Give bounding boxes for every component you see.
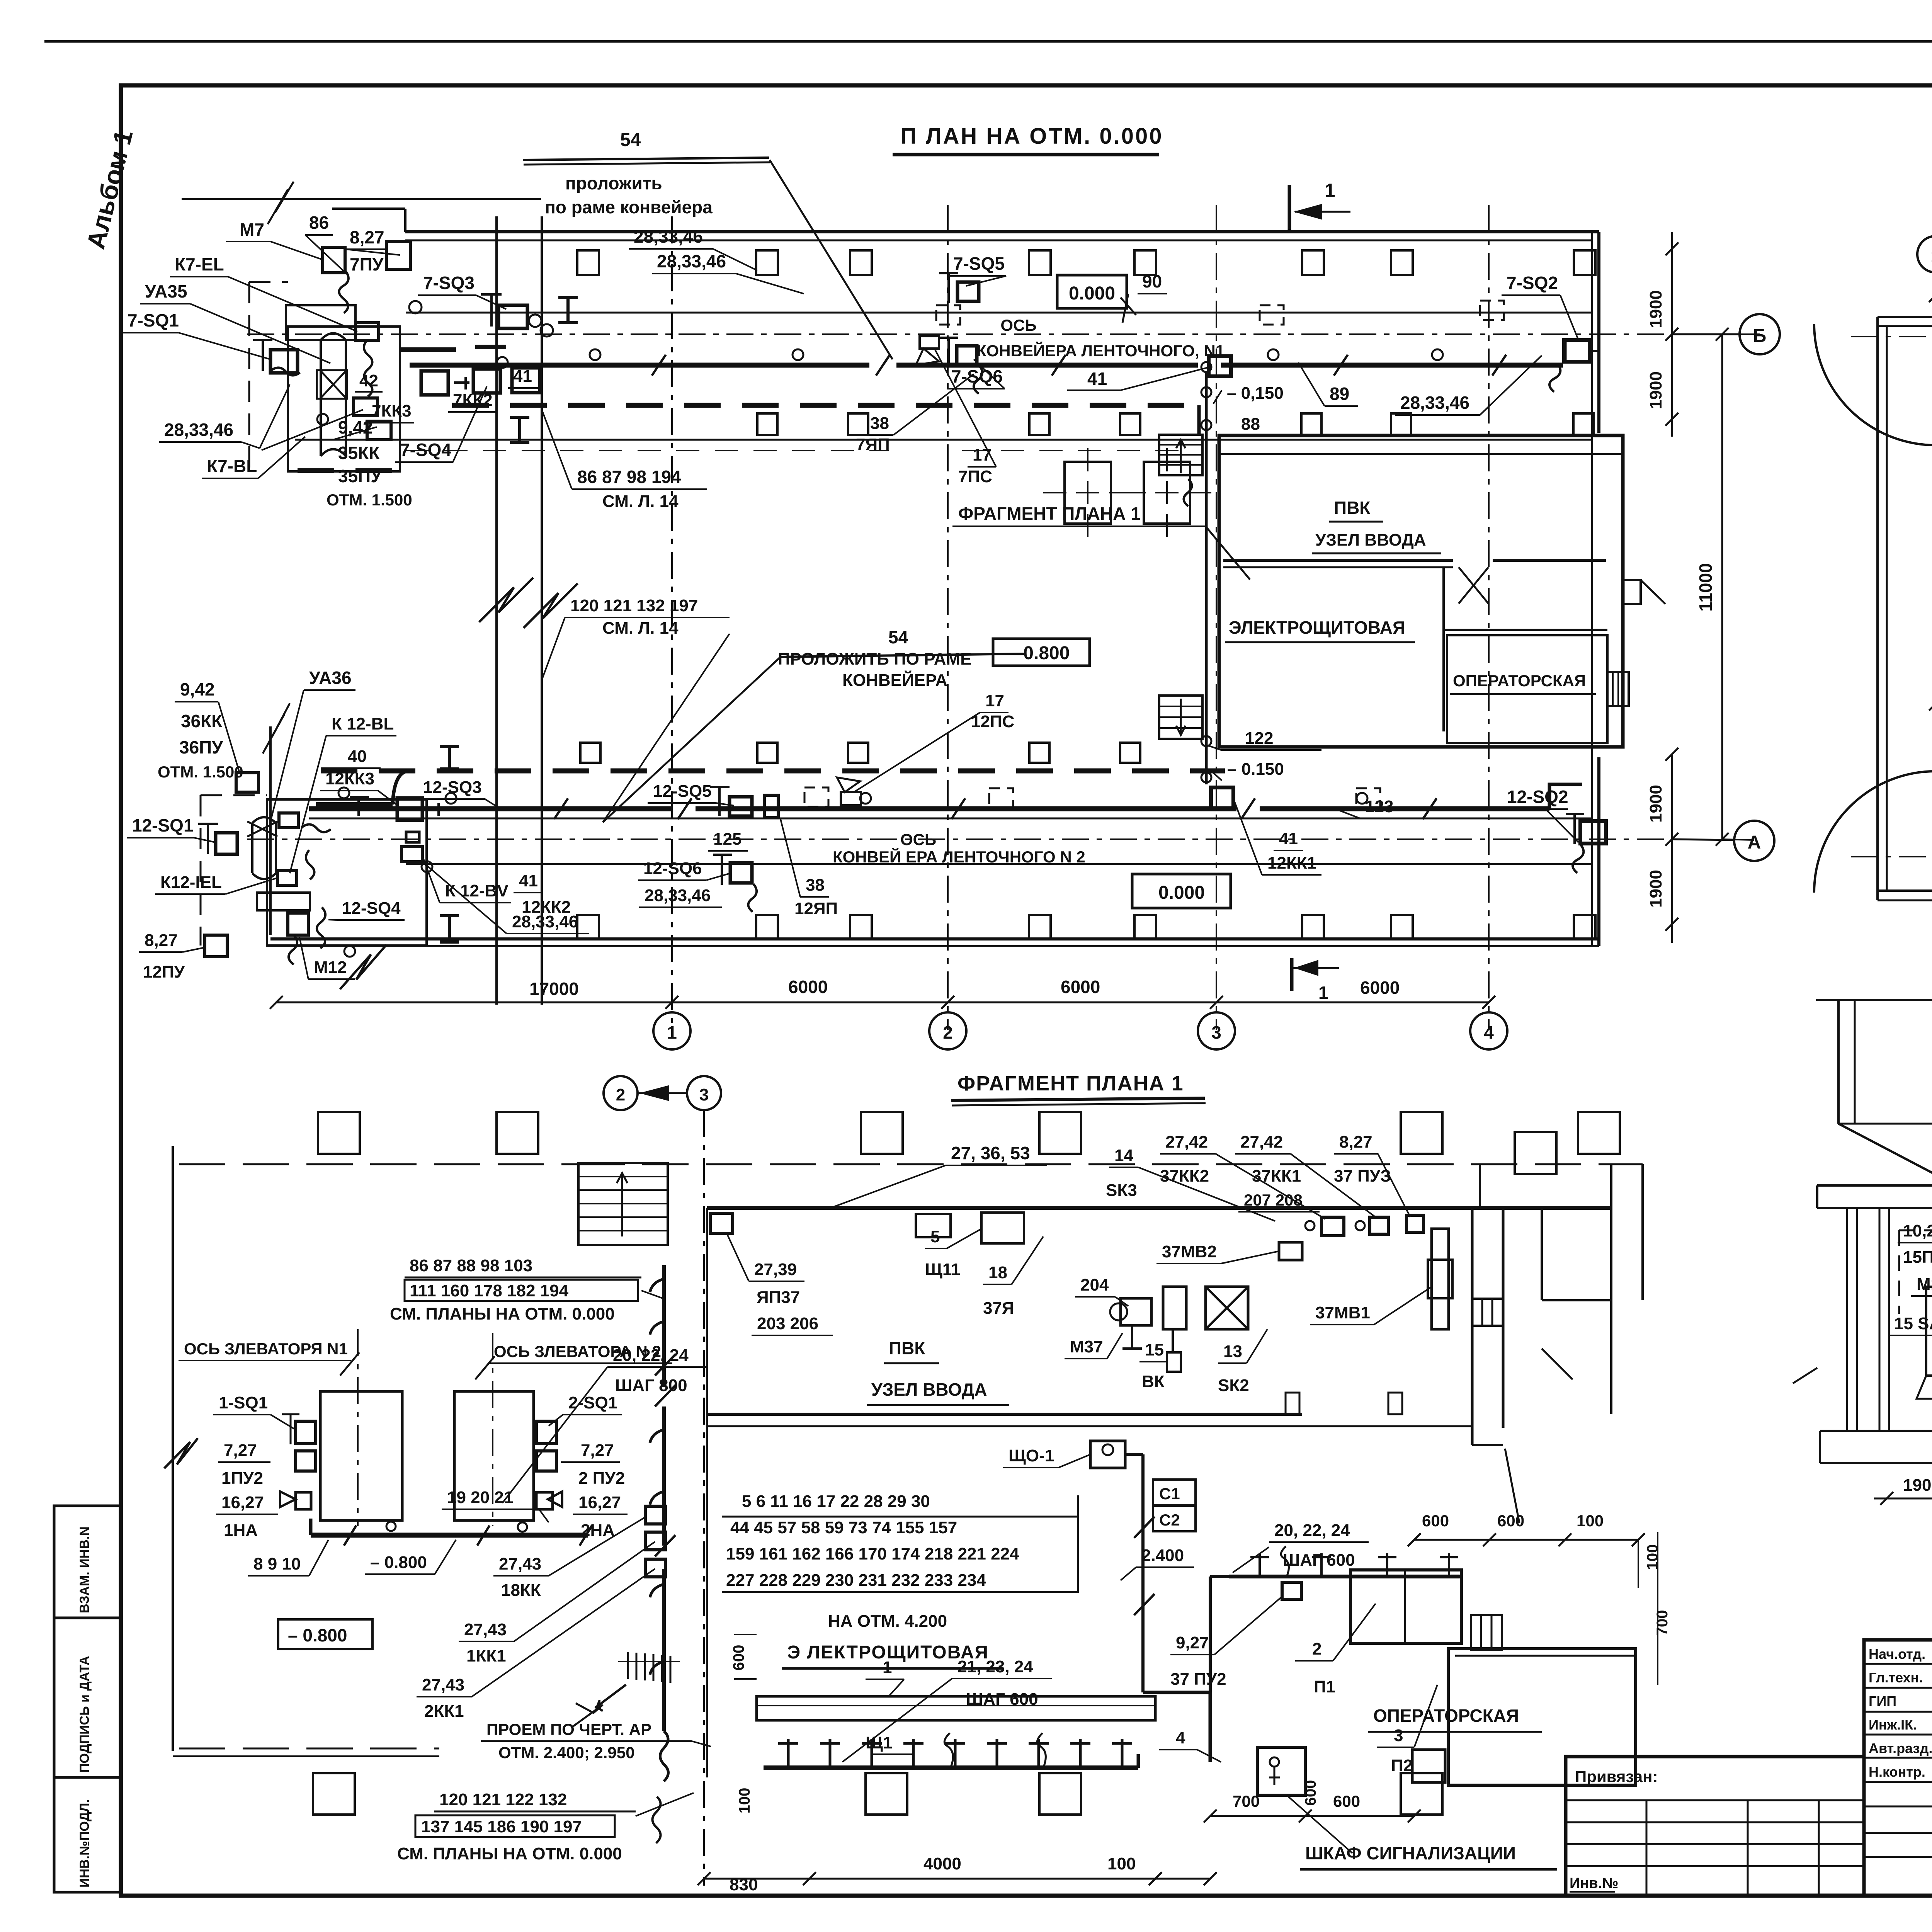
svg-text:41: 41 [519,871,538,890]
svg-text:9,42: 9,42 [180,679,215,699]
svg-text:К7-ЕL: К7-ЕL [175,254,224,274]
upper drive motor block [286,305,355,340]
svg-text:27,39: 27,39 [754,1260,797,1279]
svg-text:120 121 122 132: 120 121 122 132 [439,1790,567,1809]
svg-text:2КК1: 2КК1 [424,1702,464,1721]
svg-text:54: 54 [888,627,908,647]
camera symbol conveyor 1 [920,336,939,349]
svg-text:Инв.№: Инв.№ [1570,1875,1619,1891]
svg-text:ШКАФ СИГНАЛИЗАЦИИ: ШКАФ СИГНАЛИЗАЦИИ [1305,1843,1516,1863]
svg-text:1: 1 [1318,983,1328,1003]
fragment top columns squares [318,1112,360,1154]
svg-text:ИНВ.№ПОДЛ.: ИНВ.№ПОДЛ. [77,1799,92,1888]
svg-text:27, 36, 53: 27, 36, 53 [951,1143,1030,1163]
12-SQ6 device [730,863,752,883]
right wall window hatch [1607,672,1629,706]
svg-text:38: 38 [870,414,889,433]
inner vertical wall fragment [706,1208,708,1777]
svg-text:41: 41 [1087,369,1107,389]
elevator 2 axis [492,1333,493,1526]
svg-text:7-SQ4: 7-SQ4 [400,440,451,460]
cable squiggle below upper stair [1184,479,1192,506]
svg-text:120 121 132 197: 120 121 132 197 [570,596,698,615]
2-SQ1 device [536,1421,556,1444]
svg-text:86: 86 [309,213,329,233]
dashed device rects conveyor 1 [936,305,960,325]
left attach table Привязан [1566,1757,1864,1895]
12-SQ5 device [730,797,752,816]
svg-text:7ЯП: 7ЯП [856,435,890,454]
svg-text:0.000: 0.000 [1158,883,1205,903]
svg-text:1: 1 [667,1022,677,1043]
axis Б dash-dot [1851,336,1932,337]
svg-text:9,27: 9,27 [1176,1633,1209,1652]
svg-text:Нач.отд.: Нач.отд. [1869,1646,1925,1662]
cable corner to 12-SQ2 [1549,784,1582,809]
view direction circles 2-3 [604,1076,638,1110]
elevator 1 rectangle [320,1391,402,1520]
svg-text:0.000: 0.000 [1069,283,1115,304]
svg-text:по раме конвейера: по раме конвейера [545,197,713,217]
svg-text:SК3: SК3 [1106,1181,1137,1200]
svg-text:17: 17 [973,446,992,464]
upper cluster dashed boundary [248,282,250,479]
svg-text:К12-IЕL: К12-IЕL [160,873,222,892]
svg-text:– 0,150: – 0,150 [1227,384,1284,403]
svg-text:ШАГ 800: ШАГ 800 [615,1376,687,1395]
svg-text:28,33,46: 28,33,46 [1400,393,1469,413]
svg-text:УЗЕЛ ВВОДА: УЗЕЛ ВВОДА [871,1379,987,1400]
device 13 SК2 fan [1206,1287,1248,1329]
12-SQ1 device [216,833,237,854]
corridor walls mid fragment [1471,1208,1474,1445]
svg-text:ОСЬ: ОСЬ [1000,316,1036,334]
lower drive motor foundation [257,893,310,910]
Операторская room box [1448,1649,1636,1785]
device K7-EL box [355,323,379,340]
41 device [1209,356,1231,376]
1ПУ2 device [296,1451,316,1471]
svg-text:1: 1 [883,1658,892,1677]
svg-text:1900: 1900 [1646,290,1665,328]
dim 100 700 right rotated ticks [1657,1532,1658,1588]
svg-text:Авт.разд.: Авт.разд. [1869,1740,1932,1756]
grid axis line 3 [1216,205,1217,1030]
svg-text:12ПУ: 12ПУ [143,963,185,981]
svg-text:28,33,46: 28,33,46 [657,251,726,271]
svg-text:7КК3: 7КК3 [372,401,412,420]
svg-text:СМ. ПЛАНЫ НА ОТМ. 0.000: СМ. ПЛАНЫ НА ОТМ. 0.000 [397,1844,622,1863]
window hatch in right wall [1472,1299,1503,1326]
rooms right protrusion [1623,580,1641,604]
svg-text:41: 41 [513,367,532,386]
leader from note 54 to conveyor 1 [770,160,893,359]
axis Б circle [1740,314,1780,354]
device M7 box [323,247,345,273]
svg-text:УА35: УА35 [145,281,187,301]
svg-text:15ПУ: 15ПУ [1903,1248,1932,1267]
grid axis line 2 [947,205,949,1030]
vertical gallery shaft lines [495,216,498,1005]
svg-text:ПОДПИСЬ и ДАТА: ПОДПИСЬ и ДАТА [77,1656,92,1773]
svg-text:600: 600 [1333,1792,1360,1810]
lower drive pulley shape [252,817,276,879]
svg-text:44 45 57 58 59 73 74 1: 44 45 57 58 59 73 74 155 157 [730,1518,957,1537]
svg-text:Гл.техн.: Гл.техн. [1869,1670,1923,1685]
svg-text:А: А [1748,832,1761,853]
svg-text:28,33,46: 28,33,46 [512,912,578,931]
svg-text:28,33,46: 28,33,46 [164,420,233,440]
grid circle 1 [653,1012,690,1049]
fragment thick cable bottom of elevators [311,1533,588,1538]
svg-text:1900: 1900 [1646,785,1665,823]
small circles on conveyor 1 cable [590,349,600,360]
device K12-EL box [277,871,297,885]
svg-text:ОТМ. 2.400; 2.950: ОТМ. 2.400; 2.950 [498,1743,635,1762]
svg-text:100: 100 [1577,1512,1604,1530]
svg-text:3: 3 [1211,1022,1221,1043]
1НА device triangle [280,1492,296,1507]
riser hooks [650,1279,664,1292]
svg-text:8,27: 8,27 [145,931,178,950]
svg-text:600: 600 [1302,1780,1319,1806]
svg-text:4: 4 [1176,1728,1185,1747]
grid axis line 1 [671,216,673,1030]
upper cluster cable to 7-SQ3 [400,347,456,352]
svg-text:41: 41 [1279,829,1298,848]
cable row to Операторская [1229,1575,1461,1578]
conveyor1 right cable corner [1563,340,1567,362]
svg-text:– 0.150: – 0.150 [1227,760,1284,779]
device 15 ВК [1163,1287,1186,1329]
svg-text:ВЗАМ. ИНВ.N: ВЗАМ. ИНВ.N [77,1526,92,1613]
svg-text:7-SQ5: 7-SQ5 [953,253,1005,274]
svg-text:36КК: 36КК [181,711,223,731]
svg-text:– 0.800: – 0.800 [370,1553,427,1572]
cable slashes fragment [344,1526,356,1546]
svg-text:3: 3 [1394,1726,1403,1745]
svg-text:2: 2 [943,1022,953,1043]
cluster inner box [279,813,298,828]
grid circle 2 [929,1012,966,1049]
svg-text:СМ. Л. 14: СМ. Л. 14 [602,492,679,511]
upper drive station platform outline [288,327,400,471]
fragment right walls upper [1479,1164,1481,1208]
svg-text:16,27: 16,27 [578,1493,621,1512]
upper stairs hatch [1159,435,1202,475]
svg-text:С2: С2 [1159,1511,1180,1529]
svg-text:14: 14 [1114,1146,1133,1165]
stair block top [578,1163,668,1245]
svg-text:12-SQ2: 12-SQ2 [1507,787,1568,807]
svg-text:Инж.IК.: Инж.IК. [1869,1717,1917,1733]
lower inner column squares row [580,743,600,763]
cable break slashes conveyor 1 [652,355,666,376]
svg-text:15 SА: 15 SА [1894,1314,1932,1333]
svg-text:ПРОЛОЖИТЬ ПО РАМЕ: ПРОЛОЖИТЬ ПО РАМЕ [778,650,972,668]
2ПУ2 device [536,1451,556,1471]
cable risers right of Щ1 [1137,1754,1140,1768]
right vertical dimension line 1900/1900 top [1671,232,1673,437]
lower stairs hatch [1159,696,1202,739]
elevation box 0.000 upper [1057,275,1127,308]
lower drive station platform outline [267,799,427,946]
svg-text:1900: 1900 [1903,1476,1932,1495]
svg-text:37КК1: 37КК1 [1252,1167,1301,1185]
svg-text:54: 54 [620,130,641,150]
svg-text:К7-ВL: К7-ВL [207,456,257,476]
hatch ticks row [627,1652,629,1679]
squiggle cables lower cluster [301,824,331,832]
building outline top wall [405,230,1599,233]
riser bottom squiggle [660,1731,668,1781]
svg-text:27,42: 27,42 [1165,1133,1208,1151]
svg-text:ФРАГМЕНТ ПЛАНА 1: ФРАГМЕНТ ПЛАНА 1 [957,1072,1184,1095]
svg-text:SК2: SК2 [1218,1376,1249,1395]
svg-text:12-SQ4: 12-SQ4 [342,899,401,918]
fragment cable riser thick [662,1265,666,1387]
svg-text:5 6 11 16 17 22 28 29: 5 6 11 16 17 22 28 29 30 [742,1492,930,1511]
41 device conveyor 2 [1211,787,1233,808]
wall below uzel vvoda [1223,559,1453,562]
axis А dash-dot line [247,838,1673,840]
break mark bottom cluster [340,945,386,989]
rooms interior: hall objects two hatched pedestals [1065,462,1111,524]
grid circle 3 [1198,1012,1235,1049]
upper drive pulley shape [321,333,346,456]
svg-text:9,42: 9,42 [338,417,373,437]
svg-text:159 161 162 166 170 174 2: 159 161 162 166 170 174 218 221 224 [726,1544,1019,1563]
svg-text:6000: 6000 [788,977,828,997]
conveyor 2 КК dashed cable 12КК2 [321,769,1225,774]
svg-text:ОТМ. 1.500: ОТМ. 1.500 [158,763,243,781]
svg-text:40: 40 [348,747,367,766]
section columns below floor [1846,1208,1848,1431]
svg-text:36ПУ: 36ПУ [179,737,223,757]
building right wall [1591,232,1593,946]
svg-text:12-SQ1: 12-SQ1 [132,815,194,835]
svg-text:37МВ2: 37МВ2 [1162,1242,1217,1261]
left stamp column boxes [54,1506,121,1618]
svg-text:137 145 186 190 197: 137 145 186 190 197 [421,1817,582,1836]
section cut mark 1 top [1288,185,1291,230]
svg-text:12-SQ6: 12-SQ6 [643,859,702,878]
svg-text:КОНВЕЙЕРА: КОНВЕЙЕРА [842,670,947,690]
svg-text:1900: 1900 [1646,371,1665,409]
svg-text:13: 13 [1223,1342,1242,1361]
svg-text:7-SQ2: 7-SQ2 [1507,273,1558,293]
hook squares column [645,1506,665,1524]
device 37МВ1 tall [1432,1229,1449,1329]
svg-text:6000: 6000 [1061,977,1100,997]
узел ввода bottom wall second line [707,1425,1472,1427]
svg-text:7ПУ: 7ПУ [350,254,384,274]
right vertical dimension line 1900/1900 bottom [1671,753,1673,943]
thick cable bottom hooks row [764,1765,1138,1770]
svg-text:600: 600 [1422,1512,1449,1530]
device 7ПУ box [386,241,410,269]
12KK2 corner from cluster [393,771,410,804]
fragment top wall line [179,1163,578,1165]
svg-text:20, 22, 24: 20, 22, 24 [613,1346,689,1365]
axis А circle [1734,821,1774,861]
M15 machine outline [1926,1287,1932,1376]
door swing lines uzel vvoda [1459,567,1488,604]
fragment bottom columns squares [313,1773,355,1815]
signal cabinet [1257,1747,1305,1795]
svg-text:НА ОТМ. 4.200: НА ОТМ. 4.200 [828,1612,947,1631]
upper gallery lower dashed line 7ЯП [962,450,1179,451]
svg-text:700: 700 [1654,1610,1671,1636]
left equipment cluster dashed room [1899,1230,1932,1231]
elevator 1 axis [357,1329,359,1526]
svg-text:7-SQ6: 7-SQ6 [951,366,1003,386]
svg-text:проложить: проложить [565,173,662,193]
svg-text:2: 2 [1312,1639,1321,1658]
upper inner column squares row [757,413,777,435]
lower slab band [1820,1430,1932,1432]
svg-text:8 9 10: 8 9 10 [253,1554,301,1573]
I-beam symbol lower1 [440,747,459,769]
svg-text:86 87 88 98 103: 86 87 88 98 103 [410,1256,532,1275]
svg-text:ШАГ 600: ШАГ 600 [1283,1551,1355,1570]
svg-text:42: 42 [359,371,378,390]
37ПУ2 device [1282,1582,1301,1599]
svg-text:12ЯП: 12ЯП [794,899,838,918]
svg-text:123: 123 [1365,797,1393,816]
svg-text:1НА: 1НА [224,1521,258,1540]
fragment bottom wall dashed [179,1748,439,1750]
svg-text:1900: 1900 [1646,870,1665,908]
door swing fragment right [1505,1449,1519,1523]
building left edge lower [269,726,272,935]
svg-text:125: 125 [713,830,742,849]
svg-text:2-SQ1: 2-SQ1 [568,1393,617,1412]
dimension 600 600 100 top [1414,1539,1638,1541]
svg-text:КОНВЕЙЕРА ЛЕНТОЧНОГО, N1: КОНВЕЙЕРА ЛЕНТОЧНОГО, N1 [976,341,1225,360]
7-SQ4 devices row [421,371,448,395]
cable from Щ0-1 down [1125,1453,1143,1456]
svg-text:7-SQ3: 7-SQ3 [423,273,474,293]
svg-text:8,27: 8,27 [1339,1133,1372,1151]
svg-text:ОПЕРАТОРСКАЯ: ОПЕРАТОРСКАЯ [1453,672,1586,690]
svg-text:600: 600 [1497,1512,1524,1530]
wall band А [1878,889,1932,892]
svg-text:86 87 98 194: 86 87 98 194 [577,467,681,487]
svg-text:37Я: 37Я [983,1299,1014,1318]
axis А lower [1851,856,1932,857]
svg-text:ЩО-1: ЩО-1 [1009,1446,1054,1465]
section lower dimension 1900s [1874,1498,1932,1500]
svg-text:Н.контр.: Н.контр. [1869,1764,1925,1780]
7-SQ5 device [957,282,979,301]
fragment bottom-right cable turns [1143,1691,1210,1694]
svg-text:1ПУ2: 1ПУ2 [221,1469,263,1488]
svg-text:КОНВЕЙ ЕРА ЛЕНТОЧНОГО N 2: КОНВЕЙ ЕРА ЛЕНТОЧНОГО N 2 [833,847,1085,866]
svg-text:7ПС: 7ПС [958,467,992,486]
device М37 pump [1121,1298,1151,1325]
svg-text:19 20 21: 19 20 21 [447,1488,513,1507]
svg-text:7КК2: 7КК2 [453,391,493,410]
grid circle 4 [1470,1012,1507,1049]
svg-text:П ЛАН НА ОТМ. 0.000: П ЛАН НА ОТМ. 0.000 [900,124,1163,149]
svg-text:88: 88 [1241,415,1260,434]
svg-text:2.400: 2.400 [1141,1546,1184,1565]
svg-text:К 12-ВV: К 12-ВV [445,881,509,900]
left hopper walls [1837,1000,1840,1124]
dimension 700 600 bottom [1210,1815,1414,1817]
label -0.800 boxed [278,1619,372,1649]
upper gallery inner wall [295,439,1592,441]
1-SQ1 device [296,1421,316,1444]
svg-text:12ПС: 12ПС [971,712,1014,731]
silo semicircle 1 top [1814,324,1932,445]
svg-text:600: 600 [730,1645,747,1671]
svg-text:П2: П2 [1391,1756,1413,1775]
svg-text:ОПЕРАТОРСКАЯ: ОПЕРАТОРСКАЯ [1373,1706,1519,1726]
svg-text:ПРОЕМ ПО ЧЕРТ. АР: ПРОЕМ ПО ЧЕРТ. АР [486,1720,651,1738]
fragment left wall [172,1146,174,1751]
fragment right top walls [1641,1164,1644,1300]
window hatch operator room wall [1471,1615,1502,1650]
svg-text:38: 38 [806,876,825,895]
svg-text:ВК: ВК [1142,1372,1165,1391]
cluster thick cable [316,802,393,807]
Щ0-1 panel [1090,1441,1125,1468]
svg-text:П1: П1 [1314,1677,1335,1696]
left break mark top [268,182,294,224]
12-SQ4 squiggle device [317,907,325,948]
elevation box 0.000 lower [1132,874,1231,908]
gallery floor band [1817,1184,1932,1187]
wall stubs on bottom wall [1286,1393,1299,1414]
svg-text:2 ПУ2: 2 ПУ2 [578,1469,625,1488]
dashed device rects conveyor 2 [804,787,828,807]
conveyor 2 frame line upper [309,818,1592,820]
squiggle near 12-SQ6 [748,884,757,912]
Щ1 panel row [757,1696,1155,1720]
2НА device triangle [548,1492,562,1507]
ground line slopes [1793,1368,1817,1383]
svg-text:89: 89 [1330,384,1349,404]
silo semicircle 1 bottom [1814,771,1932,893]
sheet outer top border line [44,40,1932,43]
svg-text:18КК: 18КК [501,1581,541,1600]
П1 vent box [1350,1570,1461,1643]
svg-text:ПВК: ПВК [1334,498,1371,518]
svg-text:28,33,46: 28,33,46 [634,226,703,247]
svg-text:М15: М15 [1917,1275,1932,1294]
svg-text:С1: С1 [1159,1485,1180,1503]
devices at right of room wall [1321,1217,1344,1236]
conveyor 1 КК dashed cable 7КК1 [452,403,1199,408]
svg-text:ОСЬ: ОСЬ [900,830,936,849]
svg-text:37МВ1: 37МВ1 [1315,1303,1370,1322]
svg-text:ГИП: ГИП [1869,1693,1896,1709]
device box at left end of room wall [710,1213,733,1233]
svg-text:1-SQ1: 1-SQ1 [219,1393,268,1412]
device M12 box [288,913,308,935]
svg-text:УЗЕЛ ВВОДА: УЗЕЛ ВВОДА [1315,531,1426,549]
svg-text:УА36: УА36 [309,668,352,688]
svg-text:М37: М37 [1070,1337,1103,1356]
svg-text:12-SQ5: 12-SQ5 [653,782,712,801]
wall band Б [1878,316,1932,318]
12-SQ3 device [397,798,422,820]
device 9,42 box [367,421,391,440]
svg-text:ШАГ 600: ШАГ 600 [966,1690,1038,1709]
svg-text:ЭЛЕКТРОЩИТОВАЯ: ЭЛЕКТРОЩИТОВАЯ [1229,617,1405,638]
